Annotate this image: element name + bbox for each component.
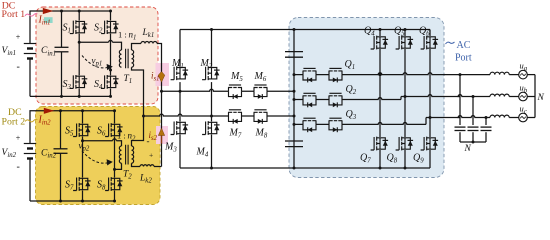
svg-text:+: +: [16, 134, 21, 143]
svg-text:Port 1: Port 1: [2, 9, 26, 20]
svg-text:1 :: 1 :: [117, 131, 126, 141]
svg-text:N: N: [464, 144, 472, 154]
svg-text:Port 2: Port 2: [2, 117, 26, 128]
svg-text:+: +: [16, 33, 21, 42]
svg-text:-: -: [147, 136, 150, 146]
svg-text:AC: AC: [457, 40, 471, 51]
svg-text:-: -: [17, 62, 20, 73]
svg-text:Port: Port: [455, 53, 472, 64]
svg-text:1 :: 1 :: [118, 29, 127, 39]
svg-text:-: -: [17, 162, 20, 173]
svg-text:N: N: [537, 93, 545, 103]
svg-text:+: +: [149, 151, 153, 160]
